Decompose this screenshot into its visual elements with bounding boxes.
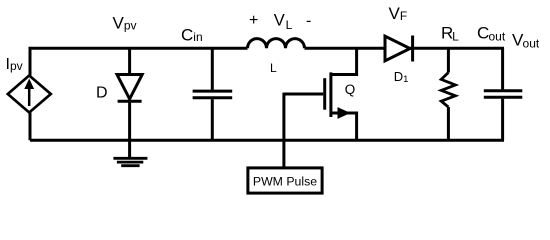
transistor Q gate lead wire [284, 93, 323, 96]
svg-text:Cout: Cout [477, 23, 506, 43]
current source Ipv diamond [8, 76, 51, 113]
svg-text:L: L [270, 61, 277, 75]
inductor L [248, 39, 305, 49]
svg-text:-: - [306, 13, 311, 30]
transistor Q drain wire [331, 48, 357, 74]
current source arrow [28, 87, 31, 106]
svg-text:+: + [249, 12, 258, 29]
svg-text:Vpv: Vpv [113, 14, 137, 33]
ground [128, 140, 131, 158]
svg-text:Vout: Vout [512, 30, 540, 50]
PWM Pulse box [248, 168, 322, 193]
svg-text:D: D [96, 85, 108, 102]
diode D cathode bar [118, 100, 142, 103]
diode D triangle [117, 75, 142, 100]
svg-text:Ipv: Ipv [6, 56, 23, 73]
transistor Q source wire [331, 113, 357, 140]
capacitor Cout [501, 48, 504, 89]
transistor Q source arrow [338, 107, 351, 119]
capacitor Cin [211, 48, 214, 90]
svg-text:RL: RL [441, 23, 459, 43]
resistor RL zigzag [441, 73, 455, 108]
wire top rail left segment [30, 48, 248, 140]
wire bottom rail [30, 139, 504, 142]
transistor Q channel bar [329, 72, 332, 117]
resistor RL top wire [447, 48, 450, 72]
wire top rail right segment [410, 47, 504, 50]
wire diode D branch [128, 48, 131, 75]
resistor RL bottom wire [447, 107, 450, 140]
svg-text:Q: Q [345, 82, 356, 97]
svg-text:VF: VF [389, 4, 408, 23]
wire diode D to bottom rail [128, 100, 131, 140]
transistor Q gate bar [323, 78, 326, 110]
svg-text:D1: D1 [394, 69, 409, 85]
diode D1 [385, 36, 410, 61]
wire gate to PWM box [282, 93, 285, 167]
svg-text:PWM Pulse: PWM Pulse [253, 175, 317, 189]
diode D1 cathode bar [411, 36, 414, 62]
svg-text:VL: VL [274, 12, 293, 33]
wire top rail middle segment [305, 47, 386, 50]
svg-text:Cin: Cin [181, 26, 203, 45]
